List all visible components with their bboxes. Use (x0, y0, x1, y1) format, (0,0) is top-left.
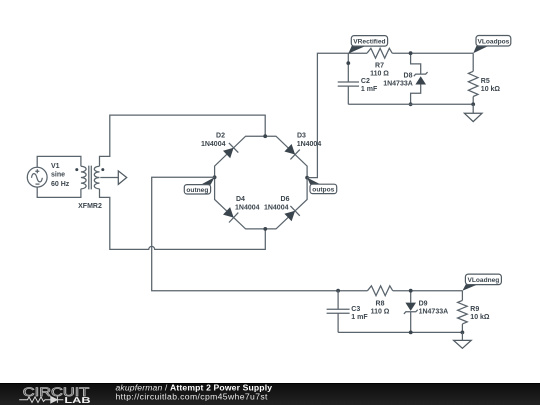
resistor R9 (458, 291, 468, 333)
wire V1 bottom to primary (37, 187, 81, 197)
svg-text:10 kΩ: 10 kΩ (470, 314, 490, 321)
net flag VLoadneg (462, 274, 501, 291)
junction on C2 branch (346, 61, 350, 65)
svg-text:60 Hz: 60 Hz (51, 181, 70, 188)
V1 value labels (51, 163, 70, 188)
svg-text:110 Ω: 110 Ω (371, 309, 390, 316)
wire outneg to lower-left rail (152, 177, 368, 290)
wire outpos up to top-right rail (307, 53, 367, 177)
svg-text:D4: D4 (236, 196, 245, 203)
net flag VLoadpos (473, 36, 511, 54)
core (89, 166, 92, 190)
junction C3 top (336, 289, 340, 293)
junction D9 top (409, 289, 413, 293)
bottom rail of negative regulator (338, 331, 462, 333)
svg-text:1N4733A: 1N4733A (419, 309, 449, 316)
zener diode D9 (404, 291, 418, 333)
svg-text:C3: C3 (351, 306, 360, 313)
R7 labels (370, 63, 389, 78)
wire secondary bottom to bridge bottom (with crossover hop) (100, 189, 266, 250)
diode D3 (284, 144, 299, 159)
primary winding (81, 166, 86, 189)
ground (positive side) (464, 104, 482, 121)
svg-text:outpos: outpos (312, 186, 334, 193)
svg-text:D8: D8 (404, 73, 413, 80)
secondary phase dot (101, 168, 104, 171)
svg-text:outneg: outneg (186, 187, 208, 194)
R8 labels (371, 301, 390, 316)
svg-text:R5: R5 (481, 78, 490, 85)
resistor R8 (368, 286, 393, 296)
svg-text:VLoadneg: VLoadneg (467, 277, 499, 284)
D4 labels (235, 196, 260, 212)
svg-text:XFMR2: XFMR2 (78, 203, 102, 210)
svg-text:D9: D9 (419, 301, 428, 308)
R9 labels (470, 306, 490, 321)
svg-text:V1: V1 (51, 163, 60, 170)
net flag outpos (307, 178, 337, 194)
D2 labels (201, 132, 226, 148)
svg-text:1N4004: 1N4004 (235, 204, 260, 211)
svg-text:LAB: LAB (64, 395, 90, 405)
C3 labels (351, 306, 368, 321)
svg-text:1N4004: 1N4004 (264, 204, 289, 211)
svg-text:sine: sine (51, 171, 65, 178)
wire V1 top to primary (37, 156, 81, 167)
wire R8 to VLoadneg corner (393, 290, 463, 292)
svg-text:C2: C2 (361, 78, 370, 85)
diode D4 (223, 207, 238, 222)
resistor R5 (468, 53, 478, 104)
secondary winding (94, 166, 99, 189)
center tap wire (100, 177, 118, 179)
svg-text:VRectified: VRectified (353, 38, 385, 45)
bottom rail of positive regulator (348, 103, 473, 105)
logo resistor-diode symbol (19, 397, 63, 403)
C2 labels (361, 78, 378, 93)
svg-text:VLoadpos: VLoadpos (477, 38, 509, 45)
diode D6 (284, 206, 299, 221)
junction R9 bottom (461, 331, 465, 335)
svg-text:R7: R7 (375, 63, 384, 70)
junction D9 bottom (409, 331, 413, 335)
voltage source V1 (27, 167, 47, 187)
bridge rectifier octagon (215, 136, 308, 229)
D9 labels (419, 301, 449, 316)
junction bridge top (263, 134, 267, 138)
resistor R7 (367, 48, 392, 58)
svg-text:1 mF: 1 mF (351, 314, 368, 321)
svg-text:D2: D2 (216, 132, 225, 139)
D3 labels (297, 132, 322, 148)
svg-text:R8: R8 (376, 301, 385, 308)
svg-text:1N4733A: 1N4733A (383, 81, 413, 88)
wire secondary top to bridge top (100, 115, 266, 166)
R5 labels (481, 78, 501, 93)
junction node outneg (213, 175, 217, 179)
transformer XFMR2 (75, 166, 104, 190)
wire R7 to VLoadpos corner (392, 52, 473, 54)
diode D2 (223, 143, 238, 158)
svg-text:R9: R9 (470, 306, 479, 313)
svg-text:http://circuitlab.com/cpm45whe: http://circuitlab.com/cpm45whe7u7st (116, 392, 269, 402)
zener diode D8 (411, 53, 428, 104)
primary phase dot (75, 168, 78, 171)
junction R7 right / D8 top (409, 51, 413, 55)
junction bridge bottom (263, 227, 267, 231)
D6 labels (264, 196, 290, 212)
capacitor C3 (327, 291, 350, 333)
footer bar (0, 383, 540, 405)
capacitor C2 (338, 53, 359, 104)
net flag outneg (184, 177, 214, 194)
net flag VRectified (348, 36, 387, 54)
junction R5 bottom (471, 102, 475, 106)
junction node outpos (305, 176, 309, 180)
svg-text:110 Ω: 110 Ω (370, 71, 389, 78)
svg-text:D3: D3 (297, 132, 306, 139)
junction D8 bottom (409, 102, 413, 106)
center tap terminal triangle (118, 171, 126, 185)
svg-text:1N4004: 1N4004 (201, 141, 226, 148)
svg-text:10 kΩ: 10 kΩ (481, 86, 501, 93)
svg-text:1 mF: 1 mF (361, 86, 378, 93)
svg-text:D6: D6 (281, 196, 290, 203)
ground (negative side) (454, 332, 472, 348)
D8 labels (383, 73, 413, 88)
